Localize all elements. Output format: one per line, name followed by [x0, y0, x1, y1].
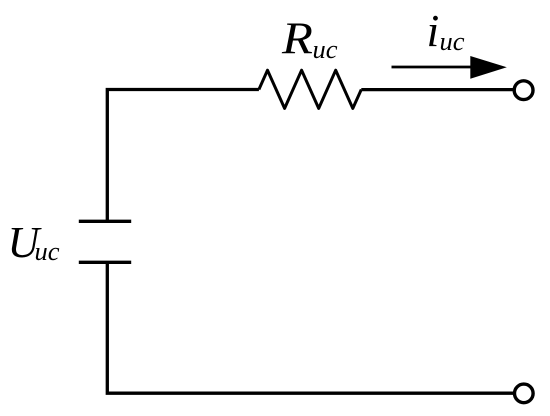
wire from capacitor bottom plate down and right to bottom terminal: [107, 262, 514, 393]
svg-text:uc: uc: [440, 26, 465, 56]
capacitor Uuc top plate: [79, 220, 131, 223]
terminal (top right, open circle): [514, 81, 533, 100]
svg-text:R: R: [281, 14, 313, 64]
current arrow iuc (line): [392, 66, 479, 69]
terminal (bottom right, open circle): [515, 384, 534, 403]
svg-text:i: i: [427, 5, 440, 56]
capacitor Uuc bottom plate: [79, 261, 131, 264]
wire from capacitor top plate up and right to resistor: [107, 90, 259, 223]
wire from resistor to top-right terminal: [361, 88, 514, 91]
svg-text:uc: uc: [313, 34, 338, 64]
svg-text:uc: uc: [35, 236, 60, 266]
current arrow iuc (head): [470, 56, 507, 79]
resistor Ruc (zigzag): [259, 70, 361, 108]
